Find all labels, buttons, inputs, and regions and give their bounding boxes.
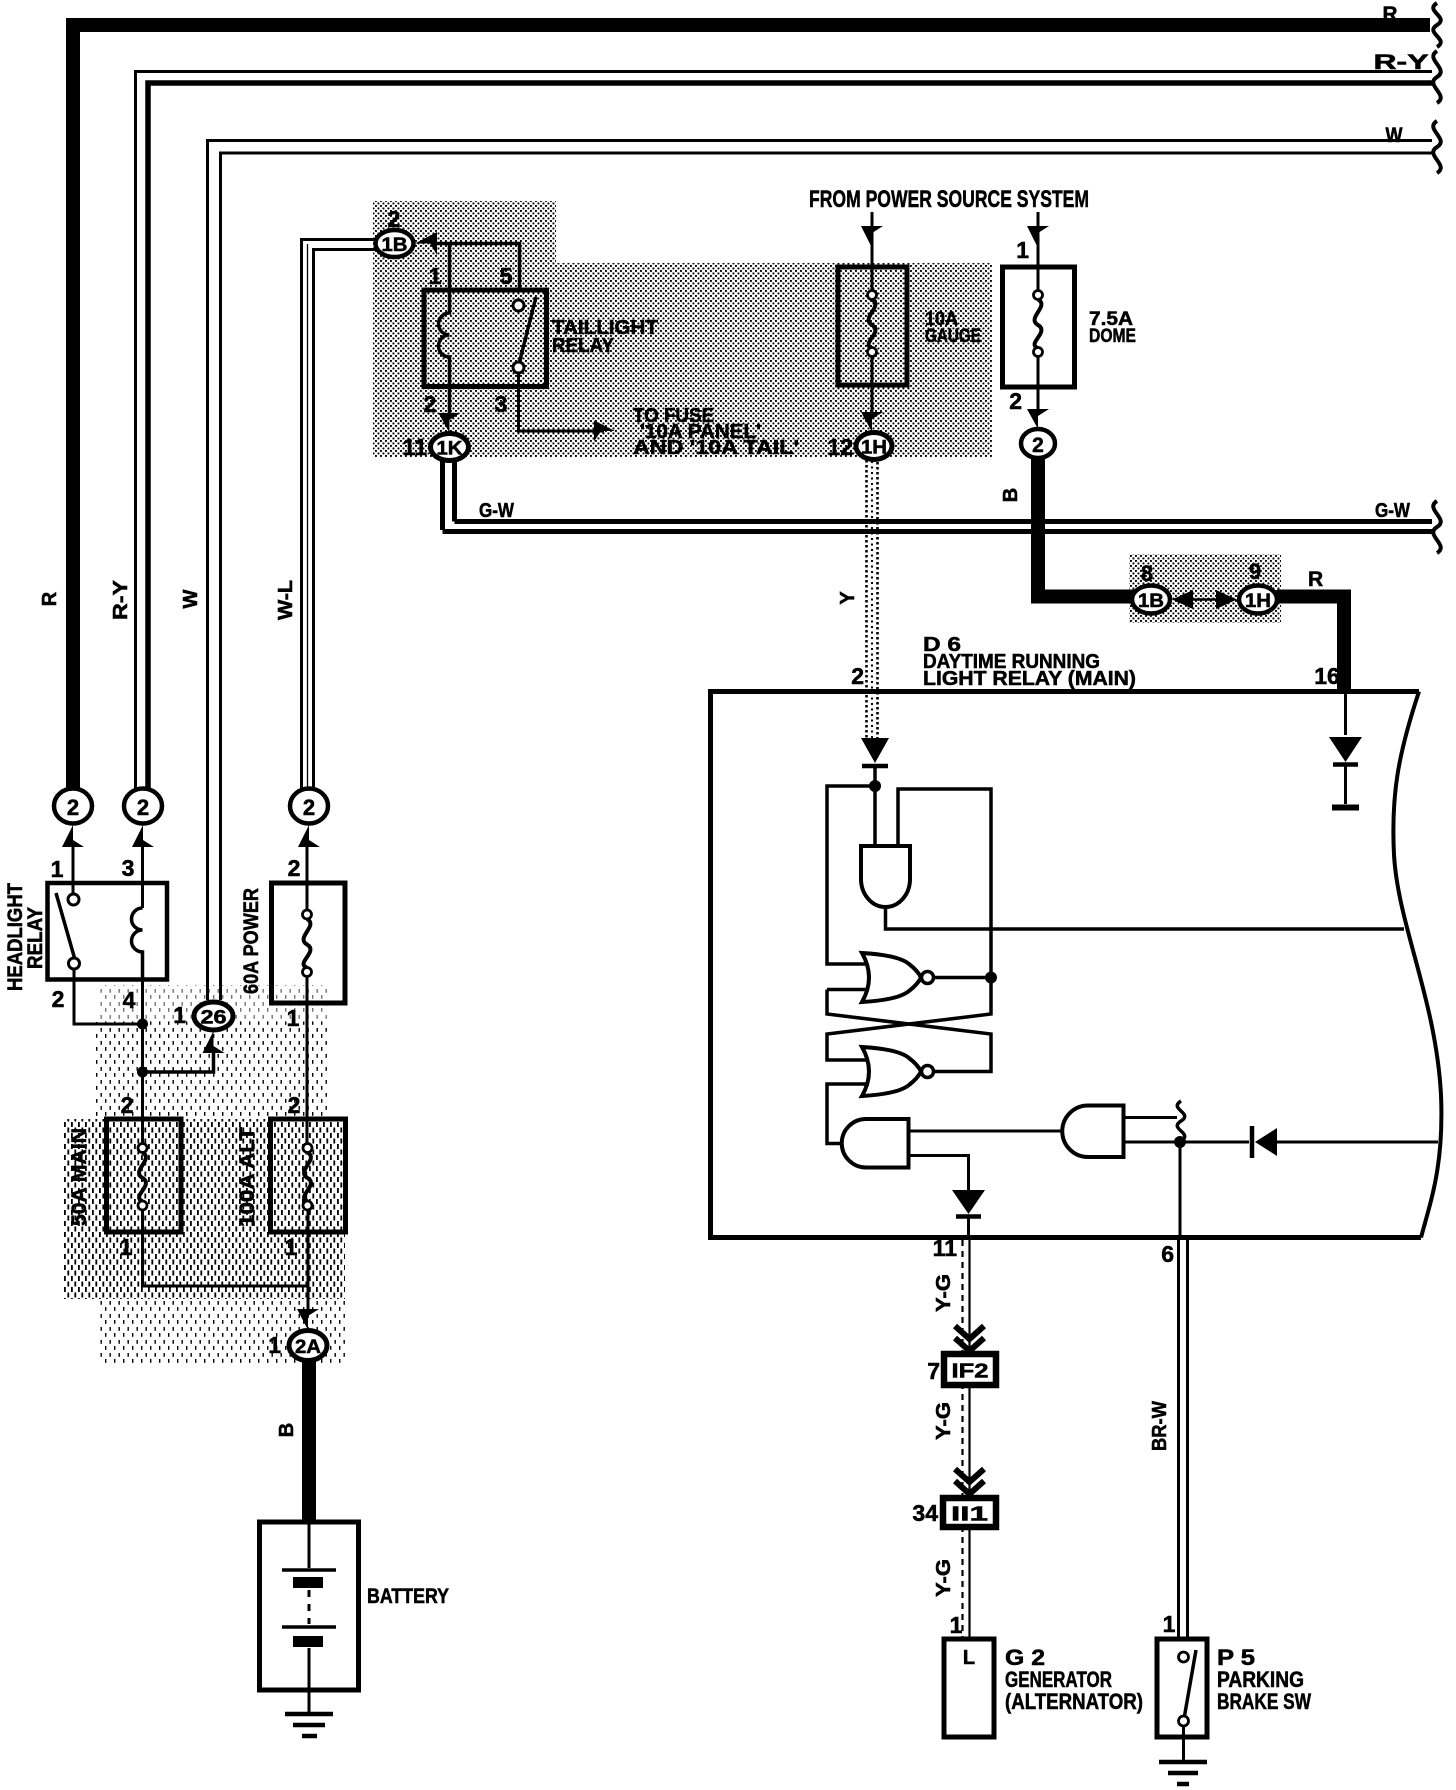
wire junction to left rail: [827, 786, 875, 964]
svg-text:16: 16: [1314, 663, 1340, 689]
battery: [260, 1522, 359, 1690]
headlight relay coil: [132, 908, 143, 980]
fuse 50A MAIN: [107, 1119, 182, 1232]
fuse 60A POWER: [272, 883, 346, 1003]
svg-text:Y-G: Y-G: [933, 1402, 955, 1440]
shaded background block connector 1B-1H pair: [1129, 554, 1281, 623]
label 7.5A DOME: [1089, 309, 1136, 347]
svg-text:2: 2: [137, 795, 149, 820]
svg-text:G-W: G-W: [479, 500, 514, 522]
svg-text:1: 1: [51, 856, 64, 882]
svg-text:100A ALT: 100A ALT: [236, 1127, 259, 1227]
wire cross coupling NOR2 out to NOR1 in: [827, 990, 991, 1072]
ground parking brake: [1159, 1726, 1207, 1784]
taillight relay switch: [513, 297, 536, 373]
wire 7.5A dome pin2: [1009, 387, 1049, 429]
svg-text:1: 1: [268, 1332, 281, 1358]
shaded background block taillight relay area: [373, 201, 992, 457]
wire pin4 rail down to 50A main: [141, 980, 144, 1149]
svg-text:1B: 1B: [1138, 591, 1164, 612]
shaded background block main fuse area: [63, 985, 345, 1365]
svg-text:AND '10A TAIL': AND '10A TAIL': [633, 437, 799, 459]
wire R from 1H to D6 pin 16 (thick): [1277, 568, 1346, 735]
wire R top (thick): [73, 3, 1441, 795]
arrow into 1K: [439, 413, 461, 433]
svg-text:1: 1: [287, 1005, 300, 1031]
svg-text:LIGHT RELAY (MAIN): LIGHT RELAY (MAIN): [923, 668, 1136, 690]
svg-text:B: B: [276, 1423, 298, 1437]
svg-text:12: 12: [827, 434, 853, 460]
chevron splice upper: [955, 1326, 984, 1351]
fuse 10A GAUGE: [838, 267, 907, 385]
headlight relay pin labels top: [51, 855, 301, 882]
diode at D6 pin 2: [861, 738, 889, 783]
wire AND2 lower to diode 11: [909, 1156, 969, 1191]
svg-text:IF2: IF2: [952, 1361, 989, 1383]
svg-text:1: 1: [120, 1234, 133, 1260]
connector 1B top oval: [376, 206, 414, 257]
wire Y dotted from 1H to D6 pin 2: [837, 460, 878, 738]
wire G-W from 1K: [443, 460, 1441, 553]
svg-text:11: 11: [933, 1235, 958, 1261]
svg-text:1: 1: [950, 1612, 963, 1638]
headlight relay switch: [56, 893, 80, 980]
label G 2 GENERATOR (ALTERNATOR): [1005, 1645, 1143, 1714]
node junction NOR1 output: [985, 972, 997, 984]
node junction pin4 rail: [137, 1019, 148, 1030]
wire junction down to AND1 input: [873, 786, 877, 846]
label D 6 DAYTIME RUNNING LIGHT RELAY (MAIN): [923, 634, 1136, 690]
svg-text:1: 1: [1163, 1611, 1176, 1637]
wire AND2 to AND3: [909, 1130, 1064, 1133]
wire into 60A power pin2: [306, 841, 309, 910]
D6 pin labels 2 and 16: [851, 663, 1340, 689]
svg-text:26: 26: [201, 1008, 227, 1029]
gate NOR2: [862, 1047, 934, 1096]
svg-text:(ALTERNATOR): (ALTERNATOR): [1005, 1689, 1143, 1714]
headlight relay pin labels bottom: [52, 986, 136, 1013]
connector 26 oval: [173, 1002, 233, 1053]
wire NOR1 output to junction: [934, 976, 992, 980]
taillight relay coil: [439, 290, 450, 387]
svg-text:BR-W: BR-W: [1149, 1401, 1171, 1451]
label HEADLIGHT RELAY vertical: [4, 883, 47, 991]
connector 1H top oval: [827, 433, 892, 461]
wire headlight relay pin2 to pin4 rail: [74, 980, 143, 1025]
svg-text:1B: 1B: [382, 235, 408, 256]
svg-text:2: 2: [424, 391, 437, 417]
label 10A GAUGE: [925, 309, 981, 347]
connector II1: [912, 1498, 996, 1527]
svg-text:BRAKE SW: BRAKE SW: [1217, 1689, 1311, 1714]
arrow to fuse panel: [594, 421, 615, 442]
svg-text:3: 3: [122, 855, 135, 881]
diode to box edge: [1252, 1126, 1438, 1158]
svg-text:6: 6: [1161, 1241, 1174, 1267]
wire from power source to 10A gauge: [861, 212, 883, 267]
relay D6 box outline: [708, 689, 1441, 1240]
svg-text:R: R: [1308, 568, 1323, 591]
svg-text:50A MAIN: 50A MAIN: [68, 1128, 91, 1226]
fuse 100A ALT: [271, 1119, 346, 1232]
svg-text:2: 2: [52, 986, 65, 1012]
connector 2 oval dome: [1021, 429, 1055, 458]
wire 10A gauge to 1H: [871, 385, 874, 414]
diode at D6 pin 11: [952, 1190, 985, 1240]
generator box: [944, 1639, 994, 1737]
fuse 7.5A DOME: [1003, 267, 1075, 387]
wire 50A main pin1 to battery rail: [143, 1210, 309, 1286]
taillight relay box: [424, 290, 547, 387]
parking brake switch box: [1157, 1639, 1207, 1737]
fuse 100A ALT pin labels: [285, 1092, 301, 1260]
wire taillight relay pin3 to fuse panel: [519, 373, 605, 431]
svg-text:Y-G: Y-G: [933, 1274, 955, 1312]
svg-text:2: 2: [851, 663, 864, 689]
svg-text:9: 9: [1249, 559, 1261, 584]
wire BR-W pin 6 to parking brake: [1149, 1240, 1188, 1639]
wire Y-G pin 11 to generator: [933, 1235, 970, 1639]
node junction pin6: [1174, 1136, 1186, 1148]
svg-text:W-L: W-L: [275, 580, 297, 620]
gate NOR1: [862, 953, 934, 1002]
svg-text:5: 5: [500, 263, 513, 289]
wire 26 to pin4 rail: [143, 1047, 214, 1072]
double arrow between 1B and 1H: [1172, 590, 1237, 609]
svg-text:W: W: [1386, 124, 1403, 147]
svg-text:1: 1: [429, 263, 442, 289]
connector 2 oval 60A power: [290, 789, 328, 848]
svg-text:R-Y: R-Y: [110, 579, 132, 620]
connector IF2: [927, 1354, 996, 1385]
connector 1H lower oval: [1239, 559, 1277, 614]
wire 100A alt pin1 down to 2A: [307, 1210, 310, 1312]
svg-text:3: 3: [495, 391, 508, 417]
svg-text:11: 11: [403, 434, 428, 460]
svg-text:2A: 2A: [295, 1337, 321, 1358]
wire into headlight relay pin3: [141, 841, 144, 908]
connector 1K oval: [403, 434, 469, 461]
svg-text:B: B: [1000, 488, 1022, 502]
svg-text:GAUGE: GAUGE: [925, 326, 981, 347]
wire from power source to 7.5A dome: [1016, 212, 1049, 267]
svg-text:2: 2: [1032, 434, 1044, 457]
node junction below pin2 diode: [869, 780, 881, 792]
gate AND2: [842, 1119, 909, 1168]
wire AND1 output to box edge: [886, 907, 1405, 929]
svg-text:G-W: G-W: [1375, 500, 1410, 522]
svg-text:60A POWER: 60A POWER: [240, 888, 263, 994]
wire AND1 second input loop: [898, 789, 991, 972]
chevron splice lower: [955, 1469, 984, 1494]
svg-text:1: 1: [173, 1002, 186, 1028]
wire from taillight relay to 1B: [436, 244, 520, 291]
svg-text:FROM POWER SOURCE SYSTEM: FROM POWER SOURCE SYSTEM: [809, 186, 1089, 213]
wire NOR1 bottom input: [827, 988, 869, 992]
arrow into 1H: [861, 412, 883, 432]
wire into headlight relay pin1: [72, 841, 75, 894]
svg-text:2: 2: [288, 855, 301, 881]
svg-text:1: 1: [285, 1234, 298, 1260]
svg-text:7: 7: [927, 1358, 940, 1384]
node junction 26 rail: [137, 1067, 148, 1078]
connector 2 oval headlight R-Y: [124, 789, 162, 848]
connector 1B lower oval: [1132, 561, 1170, 614]
wire B battery (thick): [276, 1360, 309, 1522]
wire AND3 bottom input: [1124, 1141, 1250, 1144]
wire taillight relay pin2 to 1K: [448, 387, 452, 416]
svg-text:1: 1: [1016, 237, 1029, 263]
label P 5 PARKING BRAKE SW: [1217, 1645, 1311, 1714]
wire 60A power pin1 down: [287, 977, 307, 1149]
svg-text:4: 4: [123, 987, 136, 1013]
svg-text:2: 2: [303, 795, 315, 820]
svg-text:34: 34: [912, 1500, 938, 1526]
svg-text:W: W: [180, 589, 202, 608]
svg-text:L: L: [963, 1647, 975, 1669]
wire B from dome connector (thick): [1000, 458, 1134, 597]
svg-text:2: 2: [288, 1092, 301, 1118]
svg-text:2: 2: [1009, 388, 1022, 414]
svg-text:2: 2: [67, 795, 79, 820]
ground battery: [285, 1690, 333, 1736]
gate AND3: [1062, 1106, 1123, 1158]
arrow into 1B: [415, 232, 437, 255]
svg-text:R: R: [1383, 3, 1398, 26]
label TAILLIGHT RELAY: [552, 317, 658, 357]
wire W-L (double line with stripe): [302, 240, 379, 793]
svg-text:RELAY: RELAY: [552, 335, 615, 357]
svg-text:2: 2: [121, 1092, 134, 1118]
gate AND1: [861, 846, 910, 907]
taillight relay pin labels: [424, 263, 513, 417]
wire cross coupling NOR1 out to NOR2 in: [827, 978, 991, 1061]
svg-text:BATTERY: BATTERY: [367, 1585, 449, 1608]
svg-text:R-Y: R-Y: [1374, 51, 1429, 74]
diode at D6 pin 16: [1329, 737, 1362, 808]
connector 2A oval: [268, 1331, 327, 1361]
wire NOR2 bottom input to AND2: [827, 1084, 869, 1144]
wire AND3 top input with break squiggle: [1124, 1101, 1185, 1141]
wire junction down to pin 6: [1179, 1142, 1182, 1240]
headlight relay box: [48, 883, 168, 980]
svg-text:1H: 1H: [861, 438, 887, 459]
wire W top (double line): [208, 121, 1441, 1000]
svg-text:1K: 1K: [437, 439, 463, 460]
svg-text:8: 8: [1141, 561, 1153, 586]
connector 2 oval headlight R: [54, 789, 92, 848]
wire R-Y top (double line): [136, 51, 1441, 792]
label TO FUSE 10A PANEL AND 10A TAIL: [633, 405, 799, 459]
svg-text:II1: II1: [951, 1504, 988, 1526]
fuse 50A MAIN pin labels: [120, 1092, 134, 1260]
svg-text:Y: Y: [837, 591, 859, 605]
svg-text:R: R: [39, 591, 61, 606]
svg-text:DOME: DOME: [1089, 326, 1136, 347]
svg-text:1H: 1H: [1245, 591, 1271, 612]
svg-text:RELAY: RELAY: [24, 907, 47, 969]
svg-text:Y-G: Y-G: [933, 1559, 955, 1597]
arrow into 2A: [297, 1309, 319, 1330]
